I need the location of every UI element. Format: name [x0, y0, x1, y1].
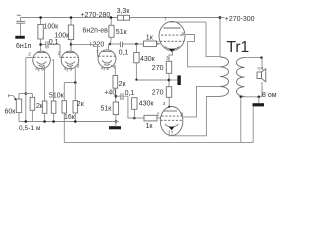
svg-text:1к: 1к: [146, 123, 154, 130]
svg-text:5: 5: [41, 67, 44, 72]
svg-text:3,3к: 3,3к: [117, 8, 131, 15]
svg-text:4: 4: [101, 65, 104, 70]
wire V1a grid to left column: [26, 57, 32, 59]
svg-text:6н1п: 6н1п: [16, 43, 32, 50]
node between 270s: [168, 73, 170, 86]
triode V1b envelope: [61, 51, 79, 69]
svg-text:4: 4: [35, 66, 38, 71]
wire to V1b grid: [60, 45, 62, 58]
wire top supply bus +270-280: [21, 17, 220, 19]
triode V1a heater stub: [38, 69, 40, 72]
transformer secondary winding: [236, 58, 244, 97]
svg-text:0,1: 0,1: [49, 39, 59, 46]
svg-text:430к: 430к: [140, 56, 156, 63]
svg-text:51к: 51к: [101, 105, 113, 112]
triode V1a anode: [37, 52, 46, 54]
ground under 51k: [109, 126, 121, 129]
wire 16k to feedback line (crosses bus): [63, 113, 65, 142]
resistor 430k #2: [132, 98, 137, 110]
wire V1a cathode down: [44, 66, 46, 101]
resistor 510k #1: [51, 101, 56, 113]
svg-text:+270-280: +270-280: [81, 12, 111, 19]
svg-text:9: 9: [182, 31, 185, 36]
resistor 100k R1b anode load 2: [70, 18, 72, 26]
svg-text:+270-300: +270-300: [225, 16, 255, 23]
svg-text:1к: 1к: [146, 35, 154, 42]
wire V1b anode to splitter grid: [70, 40, 72, 52]
svg-text:100к: 100к: [44, 24, 60, 31]
resistor 430k #1: [135, 44, 137, 52]
svg-text:3: 3: [163, 101, 166, 106]
ground (filter cap): [15, 36, 24, 39]
secondary top to speaker: [245, 58, 263, 70]
feedback line bottom: [64, 141, 253, 143]
triode V1b heater stub: [66, 69, 68, 72]
svg-text:2: 2: [157, 112, 160, 117]
resistor 51k anode load phase splitter: [110, 18, 112, 26]
capacitor C-filter top-left: [20, 18, 22, 22]
V2 anode lead to +220 node: [108, 44, 110, 49]
svg-text:3: 3: [77, 64, 80, 69]
+220 line right through cap 0,1 #2: [110, 43, 120, 45]
svg-text:7: 7: [96, 49, 99, 54]
resistor 2k input leg: [31, 94, 33, 98]
lower tube cathode arc + heater: [165, 124, 179, 127]
svg-text:7: 7: [171, 131, 174, 136]
resistor 51k #2: [113, 102, 118, 115]
coupling cap 0,1 #3 lower: [116, 95, 121, 97]
upper tube cathode arc + heater: [165, 47, 180, 50]
resistor 270 #2: [166, 87, 171, 98]
upper tube anode lead to transformer: [170, 21, 172, 24]
lower tube grids dashed: [162, 115, 183, 117]
svg-text:4: 4: [64, 66, 67, 71]
B+ down to transformer primary top: [219, 18, 221, 58]
+40 node: [115, 88, 117, 102]
svg-text:510к: 510к: [49, 93, 65, 100]
V2 anode: [103, 50, 112, 52]
wire V1a grid-leak from circle right: [52, 60, 54, 101]
secondary bottom rail: [239, 96, 262, 98]
svg-text:0,5-1 м: 0,5-1 м: [19, 125, 41, 132]
ground riser from bottom line: [252, 106, 254, 142]
svg-text:51к: 51к: [116, 29, 128, 36]
output tube upper envelope: [159, 22, 185, 51]
black bar capacitor at node: [177, 75, 180, 85]
resistor 270 #1: [166, 61, 171, 73]
svg-text:16к: 16к: [64, 114, 76, 121]
triode V1a grid (dashed): [34, 56, 50, 58]
svg-text:2к: 2к: [36, 103, 44, 110]
resistor 1k #2 grid stopper lower: [135, 117, 145, 119]
triode V1b anode: [66, 52, 75, 54]
upper tube grids dashed: [161, 34, 183, 36]
resistor 3,3k in supply bus: [118, 15, 130, 20]
svg-text:5: 5: [106, 66, 109, 71]
wire pot top and 2k top to grid line: [19, 93, 32, 95]
resistor 100k R1a anode load 1: [40, 18, 42, 25]
svg-text:60к: 60к: [5, 109, 17, 116]
ground at speaker: [253, 103, 265, 106]
triode V1b cathode arc: [65, 62, 75, 65]
resistor 1k grid stopper upper: [144, 41, 157, 47]
upper tube screen pin9 to UL tap: [185, 35, 220, 67]
output tube lower envelope: [160, 107, 183, 136]
wire 430k to cathode node: [136, 79, 169, 81]
triode V2 phase splitter envelope: [98, 50, 116, 68]
lower tube cathode pin7 to primary bottom: [169, 97, 220, 136]
svg-text:Tr1: Tr1: [227, 39, 250, 56]
lower tube anode: [164, 110, 177, 112]
svg-text:2: 2: [58, 51, 61, 56]
svg-text:8 ом: 8 ом: [262, 92, 277, 99]
ground bus bottom: [19, 121, 119, 123]
svg-text:+40: +40: [104, 90, 116, 97]
wire to lower grid node: [123, 96, 135, 118]
svg-text:270: 270: [152, 89, 164, 96]
V2 grid dashed: [99, 55, 116, 57]
speaker rail down to feedback: [240, 97, 242, 143]
triode V1a envelope: [33, 51, 51, 69]
svg-text:9: 9: [180, 111, 183, 116]
resistor 510k #2 (16k fb leg): [63, 83, 65, 101]
V2 cathode arcs: [102, 60, 112, 63]
triode V1a cathode arc: [37, 62, 47, 65]
svg-text:2к: 2к: [77, 101, 85, 108]
resistor 2k #2: [74, 83, 76, 101]
svg-text:430к: 430к: [139, 101, 155, 108]
lower tube screen pin9 to UL tap: [183, 87, 220, 117]
cathode circuit phase splitter: 2k: [111, 65, 115, 75]
transformer primary winding: [220, 57, 229, 96]
V2 heater stub: [103, 67, 105, 70]
upper tube cathode lead to 270: [169, 51, 173, 62]
potentiometer 60k: [16, 99, 21, 113]
svg-text:5: 5: [70, 67, 73, 72]
svg-text:Гр1: Гр1: [258, 67, 264, 71]
svg-text:7: 7: [164, 17, 167, 22]
svg-text:270: 270: [152, 65, 164, 72]
wire 270#2 to lower tube anode: [168, 97, 170, 107]
svg-text:6н2п-ев: 6н2п-ев: [83, 27, 109, 34]
input stub and wiper: [8, 95, 13, 97]
svg-text:2: 2: [156, 41, 159, 46]
triode V1b grid (dashed): [62, 56, 78, 58]
svg-text:2: 2: [28, 52, 31, 57]
svg-text:0,1: 0,1: [119, 49, 129, 56]
upper tube anode: [163, 27, 180, 29]
svg-text:2к: 2к: [119, 81, 127, 88]
wire V1b pin3 down to resistors node: [74, 66, 76, 83]
resistor 2k cathode V1a: [42, 101, 47, 113]
coupling capacitor 0,1 stage1: [41, 44, 46, 46]
